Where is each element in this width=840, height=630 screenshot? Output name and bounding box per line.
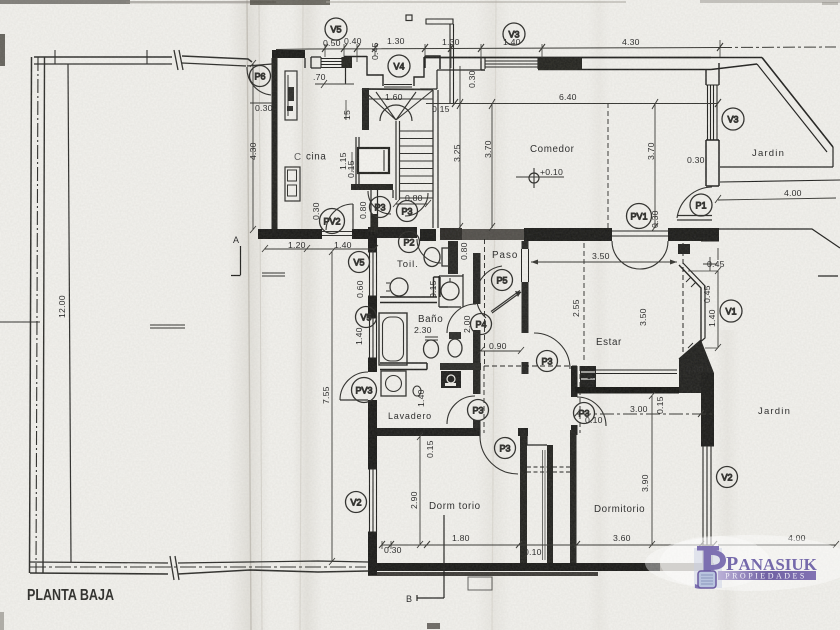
vestibule door P3a arc bbox=[368, 191, 391, 214]
right side 1.40 dim bbox=[715, 267, 721, 351]
estar south shelf lines bbox=[586, 370, 677, 374]
comedor north wall inner line bbox=[481, 64, 757, 70]
0.30 dim west bottom bbox=[382, 541, 391, 549]
patio boundary left: solid + dash-dot + solid bbox=[30, 57, 32, 573]
bay window V1 trapezoid glazing bbox=[679, 265, 701, 359]
dorm2 east wall lower (washed) bbox=[702, 545, 713, 575]
window V5a west glazing bbox=[368, 252, 377, 296]
3.90 dim dorm2 bbox=[649, 392, 655, 548]
closet divider bbox=[547, 445, 553, 563]
door P4 arc bbox=[447, 304, 476, 333]
toil WC bbox=[424, 248, 440, 267]
dark jamb band east of window V3a bbox=[538, 58, 582, 70]
tag P4 bbox=[471, 314, 492, 335]
section B line top bbox=[426, 19, 454, 103]
east wall solid below window bbox=[706, 140, 719, 186]
comedor vertical dim lines bbox=[460, 66, 655, 228]
stair winder arc bbox=[380, 105, 412, 121]
3.00 dorm2 dim dash-dot bbox=[577, 413, 714, 415]
comedor east wall (x706-719) bbox=[706, 63, 719, 85]
patio inner line vertical bbox=[68, 64, 71, 562]
cocina north wall bbox=[272, 50, 305, 58]
estar north wall black segment east bbox=[668, 228, 702, 241]
0.90 hall dim bbox=[478, 347, 524, 354]
0.70 dim cocina bbox=[315, 80, 354, 88]
hall dashed rectangle bbox=[484, 366, 580, 433]
tag P5 bbox=[492, 270, 513, 291]
tag P1 bbox=[690, 194, 712, 216]
tag V5 west a bbox=[349, 252, 370, 273]
paso east wall bbox=[522, 241, 529, 249]
bay SE corner block bbox=[679, 340, 714, 393]
stair first tread bbox=[362, 98, 433, 100]
door PV2 threshold bbox=[322, 232, 352, 236]
top dimension chain line bbox=[276, 48, 720, 50]
comedor north wall outer line bbox=[425, 57, 711, 59]
tag V4 bbox=[388, 55, 410, 77]
dash-dot centre line bottom bbox=[30, 566, 366, 568]
tag PV1 bbox=[627, 204, 652, 229]
tag P2 bbox=[399, 232, 420, 253]
door PV2 arc bbox=[326, 204, 353, 230]
tag P3 estar bbox=[537, 351, 558, 372]
banio bidet bbox=[448, 339, 462, 357]
break marks top bbox=[174, 50, 183, 70]
tag V2 west bbox=[346, 492, 367, 513]
door P3 dorm1 arc bbox=[480, 437, 518, 474]
banio WC bbox=[424, 340, 439, 358]
door P6 arc bbox=[247, 67, 271, 95]
cocina north-east jog bbox=[305, 57, 321, 68]
wall right of V4 to B corner bbox=[425, 56, 440, 69]
vestibule wall bits under stair bbox=[371, 190, 393, 232]
wall piece east of window bbox=[342, 57, 352, 68]
tag V5 west b bbox=[356, 307, 377, 328]
estar closet black box bbox=[580, 366, 596, 387]
lavadero south wall / dorm1 north wall bbox=[368, 428, 480, 436]
toil sink bbox=[390, 278, 408, 296]
west wall (heavy) segments bbox=[368, 232, 377, 252]
vestibule door P3b arc bbox=[405, 193, 428, 216]
door P5 leaf + arc bbox=[491, 291, 521, 314]
estar bay dashed jamb bbox=[682, 243, 684, 377]
guest sink niche outline bbox=[439, 274, 463, 307]
estar north wall black segment west bbox=[524, 228, 612, 241]
niche sink bbox=[441, 282, 459, 300]
stair bottom wall bbox=[351, 184, 393, 190]
section A mark bbox=[231, 246, 241, 276]
P1 corner block (black) bbox=[701, 228, 719, 242]
dorm2 east wall upper (heavy) bbox=[701, 373, 714, 446]
tag P6 bbox=[250, 66, 271, 87]
tag P3 dorm2 bbox=[574, 403, 595, 424]
PROPIEDADES bar bbox=[718, 571, 816, 580]
JP monogram bbox=[695, 546, 726, 589]
window V2a west glazing bbox=[368, 469, 377, 532]
window V3a glazing in north wall bbox=[485, 58, 538, 69]
break marks bottom bbox=[170, 556, 179, 580]
JP monogram backdrop bbox=[694, 548, 722, 588]
cocina south wall bbox=[258, 229, 322, 239]
closet right wall bbox=[570, 430, 577, 563]
patio boundary bottom double line bbox=[30, 570, 368, 574]
tag V3 east bbox=[722, 108, 744, 130]
2.90 dim dorm1 bbox=[417, 433, 423, 548]
tag V3 top bbox=[503, 23, 525, 45]
dumbwaiter closet bbox=[358, 148, 389, 173]
tag PV2 bbox=[320, 209, 345, 234]
comedor dashed jamb line bbox=[607, 103, 609, 228]
small oval lavadero bbox=[413, 386, 421, 396]
closet inner lines bbox=[543, 450, 546, 560]
bottom dim line y545 bbox=[382, 544, 714, 546]
level mark comedor bbox=[529, 173, 539, 183]
jardin boundary right closing bbox=[720, 147, 833, 167]
closet top notch bbox=[527, 430, 547, 445]
V4 recess walls bbox=[344, 56, 424, 86]
banio south wall bbox=[380, 363, 427, 370]
tag P3 hall bbox=[468, 400, 489, 421]
stair winder fan bbox=[362, 89, 433, 120]
tag V1 bbox=[720, 300, 742, 322]
comedor south wall west segment bbox=[420, 229, 436, 241]
door hall-lavadero arc bbox=[447, 396, 475, 424]
6.40 dim line comedor bbox=[426, 103, 718, 105]
kitchen counter with sink bbox=[285, 71, 297, 120]
top dim ticks bbox=[322, 43, 723, 52]
4.30 dim left of cocina bbox=[250, 60, 256, 233]
boundary post ticks bbox=[55, 50, 147, 64]
V4 glazing band over stair bbox=[384, 85, 412, 90]
left edge tick bbox=[0, 34, 5, 66]
door P2 arc bbox=[417, 239, 441, 263]
jardin diagonal boundary (double) bbox=[762, 58, 833, 148]
stair lower treads bbox=[399, 131, 433, 198]
tag P3 vestibule b bbox=[397, 201, 418, 222]
toil/banio divider wall bbox=[380, 297, 437, 303]
door P3 dorm2 arc bbox=[577, 397, 606, 426]
stair/comedor thin divider bbox=[433, 90, 438, 228]
section B line bottom bbox=[417, 515, 444, 601]
0.30 P6 dim bbox=[250, 102, 272, 104]
stair centre wall lower bbox=[396, 121, 400, 200]
jardin horizontals right of house bbox=[720, 180, 840, 182]
window V5 north cocina glazing bbox=[321, 57, 342, 68]
south wall exterior (heavy) bbox=[368, 563, 660, 571]
washer bbox=[381, 371, 406, 396]
bay top corner block bbox=[678, 244, 690, 254]
door P1 arc + leaf bbox=[677, 187, 712, 218]
bath tub bbox=[379, 313, 407, 365]
boiler (dark) bbox=[441, 371, 461, 388]
7.55 dim line patio right bbox=[329, 248, 335, 565]
small rect mark below south wall bbox=[468, 577, 492, 590]
section letters bbox=[406, 15, 412, 21]
north wall extension to boundary corner bbox=[711, 57, 762, 59]
top edge smudge bbox=[0, 0, 130, 4]
3.50 estar dim with arrows bbox=[531, 261, 677, 263]
patio boundary top double line bbox=[34, 56, 252, 62]
dim bits near stair/vestibule 0.80 bbox=[393, 200, 431, 207]
PV1 threshold lines bbox=[612, 231, 668, 236]
small vertical dim marks left of stair bbox=[346, 100, 352, 172]
svg-text:PROPIEDADES: PROPIEDADES bbox=[725, 572, 807, 581]
hall west wall bbox=[473, 253, 481, 304]
estar dashed line bbox=[583, 243, 585, 362]
JP shield bbox=[698, 571, 716, 588]
cocina west wall (heavy) bbox=[272, 58, 278, 233]
tag PV3 bbox=[352, 378, 377, 403]
tag V5 top bbox=[325, 18, 347, 40]
watermark halo bbox=[645, 535, 840, 591]
window V2b east glazing bbox=[701, 446, 714, 545]
horizontal line A (mid left, from patio to house) bbox=[262, 273, 285, 276]
closet dashed rails bbox=[527, 467, 570, 472]
window V5b west glazing bbox=[368, 318, 377, 358]
door PV3 arc (to patio) bbox=[340, 372, 368, 400]
door P3 estar arc bbox=[534, 333, 570, 369]
top dim witness verticals bbox=[325, 40, 720, 68]
estar south wall (heavy) bbox=[575, 387, 679, 394]
faint fold lines bbox=[247, 0, 251, 630]
toil east wall bbox=[448, 241, 458, 274]
tag P3 vestibule a bbox=[370, 197, 391, 218]
0.45 bracket bbox=[703, 248, 718, 271]
1.20/1.40 dim line under cocina bbox=[262, 245, 378, 252]
right side 4.00 dim top bbox=[715, 195, 836, 203]
hall east wall bbox=[571, 366, 578, 397]
scan fold band left-center bbox=[228, 0, 270, 630]
small step at comedor NW corner bbox=[420, 70, 481, 89]
stair left wall bbox=[362, 88, 369, 130]
door PV1 double arcs bbox=[612, 241, 668, 269]
tag P3 dorm1 bbox=[495, 438, 516, 459]
tag V2 east bbox=[717, 467, 738, 488]
kitchen stove cabinet bbox=[285, 167, 300, 201]
stair top wall line bbox=[362, 88, 433, 91]
bottom 4.00 dim jardin bbox=[718, 541, 839, 548]
toilet north wall bbox=[368, 227, 417, 238]
closet left wall bbox=[520, 430, 527, 563]
banio east jog wall bbox=[434, 277, 441, 297]
window V3b glazing vertical bbox=[706, 85, 719, 140]
